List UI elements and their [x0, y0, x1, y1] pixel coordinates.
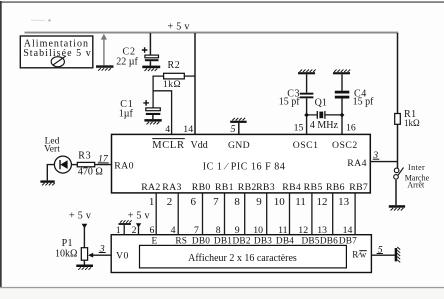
- wire RB6 to DB6: [332, 193, 334, 235]
- power supply box PS1: [20, 36, 93, 68]
- wire RB0 to DB0: [202, 193, 204, 235]
- wire RB3 to DB3: [266, 193, 268, 235]
- ground (switch): [389, 205, 405, 210]
- resistor R1: [395, 109, 420, 128]
- svg-text:Vert: Vert: [44, 144, 60, 154]
- wire P1 wiper to V0: [88, 253, 111, 258]
- wire RB5 to DB5: [311, 193, 313, 235]
- svg-text:8: 8: [234, 196, 240, 208]
- svg-text:2: 2: [167, 196, 173, 208]
- svg-text:Q1: Q1: [315, 97, 327, 108]
- svg-text:1µf: 1µf: [119, 109, 134, 120]
- wire RB2 to DB2: [244, 193, 246, 235]
- svg-text:GND: GND: [228, 140, 250, 151]
- wire switch to ground: [395, 180, 397, 205]
- svg-text:RB5: RB5: [304, 182, 323, 193]
- svg-text:470 Ω: 470 Ω: [78, 167, 103, 178]
- switch S1 Inter Marche/Arret: [394, 163, 430, 190]
- resistor R3: [77, 150, 103, 177]
- svg-text:RB0: RB0: [192, 182, 211, 193]
- svg-text:15 pf: 15 pf: [353, 97, 375, 108]
- wire RB7 to DB7: [354, 193, 356, 235]
- svg-text:Stabilisée 5 v: Stabilisée 5 v: [23, 48, 92, 59]
- svg-text:RA0: RA0: [114, 160, 134, 171]
- wire +5v rail: [25, 32, 399, 34]
- svg-text:7: 7: [213, 196, 219, 208]
- wire RA4 to switch: [370, 161, 398, 163]
- power arrow +5v (P1): [82, 224, 88, 248]
- capacitor C4: [335, 74, 374, 134]
- ground (C4 top): [333, 70, 350, 75]
- ground (C1): [144, 119, 161, 124]
- wire supply arrow to rail: [101, 34, 107, 66]
- wire rail to C2: [149, 33, 151, 55]
- svg-text:22 µf: 22 µf: [116, 56, 138, 67]
- svg-text:13: 13: [338, 196, 350, 208]
- svg-text:12: 12: [317, 196, 328, 208]
- svg-text:4 MHz: 4 MHz: [310, 120, 339, 131]
- ground (supply): [96, 65, 114, 70]
- svg-text:RB2: RB2: [238, 182, 257, 193]
- crystal Q1: [307, 97, 342, 131]
- svg-text:R2: R2: [168, 60, 181, 71]
- node junction OSC1: [304, 113, 309, 118]
- wire rail to R1: [397, 33, 399, 114]
- ground (display pin 1): [119, 220, 132, 234]
- svg-text:11: 11: [295, 196, 306, 208]
- wire R/W to ground: [371, 254, 395, 256]
- svg-text:RB4: RB4: [282, 182, 301, 193]
- svg-text:1kΩ: 1kΩ: [404, 118, 420, 128]
- svg-text:+ 5 v: + 5 v: [128, 211, 150, 222]
- wire R2 right to Vdd line: [184, 75, 195, 77]
- svg-text:Afficheur 2 x 16 caractères: Afficheur 2 x 16 caractères: [188, 253, 297, 264]
- svg-text:15 pf: 15 pf: [279, 97, 301, 108]
- wire RA2 to E: [155, 193, 157, 235]
- svg-text:10kΩ: 10kΩ: [55, 248, 77, 259]
- IC U1 PIC16F84: [112, 134, 371, 193]
- pin 3 label (RA4): [372, 150, 379, 161]
- wire rail to Vdd pin 14: [194, 33, 196, 135]
- ground (C2): [142, 66, 160, 71]
- svg-text:14: 14: [183, 124, 193, 135]
- svg-text:OSC1: OSC1: [293, 140, 319, 151]
- svg-text:RB7: RB7: [349, 182, 368, 193]
- ground (LED): [40, 180, 54, 185]
- border frame left: [0, 1, 2, 288]
- wire RB1 to DB1: [224, 193, 226, 235]
- resistor R2: [163, 60, 184, 90]
- svg-text:Vdd: Vdd: [191, 140, 208, 151]
- svg-text:1kΩ: 1kΩ: [163, 80, 181, 90]
- node junction OSC2: [340, 113, 345, 118]
- svg-text:4: 4: [165, 124, 170, 135]
- svg-text:RA4: RA4: [347, 158, 367, 169]
- svg-text:RA3: RA3: [162, 182, 181, 193]
- svg-text:Arrêt: Arrêt: [407, 180, 425, 189]
- wire LED to R3: [71, 164, 77, 166]
- svg-text:9: 9: [256, 196, 262, 208]
- ground (GND pin 5): [230, 118, 246, 135]
- svg-text:RB6: RB6: [326, 182, 345, 193]
- svg-text:R3: R3: [78, 150, 91, 161]
- svg-text:V0: V0: [116, 251, 129, 262]
- wire R3 to RA0 pin 17: [95, 164, 112, 166]
- ground (R/W termination): [395, 247, 401, 262]
- svg-text:RB1: RB1: [215, 182, 234, 193]
- LED D1: [44, 136, 71, 173]
- pin 3 label (V0): [99, 243, 106, 254]
- wire R2 left down to C1: [153, 76, 164, 108]
- wire RB4 to DB4: [289, 193, 291, 235]
- capacitor C1: [119, 99, 161, 120]
- potentiometer P1: [55, 238, 88, 264]
- wire branch to MCLR pin 4: [153, 91, 172, 135]
- border frame top: [0, 1, 444, 3]
- power arrow +5v (display pin 2): [136, 223, 141, 234]
- svg-text:5: 5: [231, 124, 236, 135]
- svg-text:16: 16: [346, 122, 356, 133]
- capacitor C2: [116, 47, 158, 68]
- svg-text:15: 15: [294, 122, 304, 133]
- scan smudge: [31, 20, 45, 21]
- wire RA3 to RS: [177, 193, 179, 235]
- svg-text:MCLR: MCLR: [152, 140, 185, 151]
- pin 17 label: [98, 154, 109, 165]
- ground (P1): [76, 265, 93, 270]
- wire LED left to ground: [47, 165, 54, 181]
- svg-text:OSC2: OSC2: [332, 140, 358, 151]
- wire R1 to switch: [397, 124, 399, 169]
- pin 5 label (R/W): [377, 244, 383, 255]
- display module LCD: [111, 235, 371, 273]
- border frame bottom: [0, 287, 444, 288]
- ground (C3 top): [298, 70, 316, 75]
- svg-text:IC 1 ∕ PIC 16 F 84: IC 1 ∕ PIC 16 F 84: [203, 161, 286, 172]
- svg-text:1: 1: [149, 196, 155, 208]
- svg-text:Inter: Inter: [408, 163, 425, 172]
- svg-text:+ 5 v: + 5 v: [168, 22, 190, 33]
- svg-text:10: 10: [274, 196, 286, 208]
- capacitor C3: [279, 74, 314, 134]
- svg-text:RB3: RB3: [256, 182, 275, 193]
- svg-text:+ 5 v: + 5 v: [69, 210, 91, 221]
- svg-text:RA2: RA2: [141, 182, 160, 193]
- svg-text:6: 6: [191, 196, 197, 208]
